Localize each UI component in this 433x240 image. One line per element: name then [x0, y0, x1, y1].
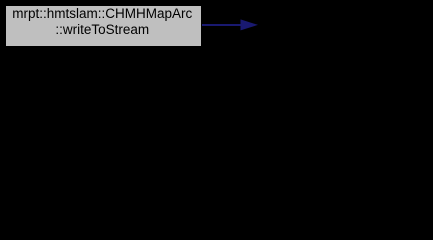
wire arrow edge — [0, 0, 433, 52]
label mrpt::hmtslam::CHMHMapArc::writeToStream — [3, 6, 202, 37]
node mrpt::hmtslam::CHMHMapArc::writeToStream — [4, 4, 203, 48]
edge shaft — [202, 24, 242, 26]
arrowhead — [241, 19, 259, 30]
